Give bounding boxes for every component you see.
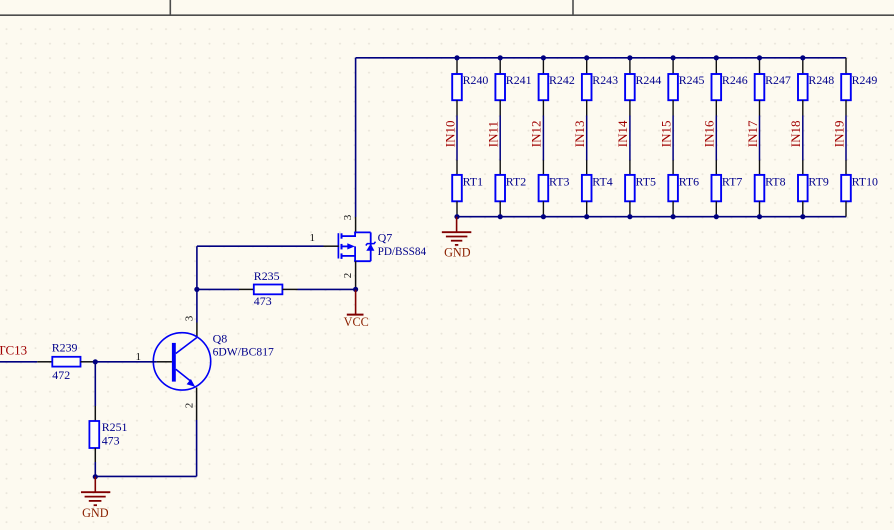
svg-text:R240: R240: [463, 73, 489, 87]
wire/pin column 7 bottom (RT7 to bus): [715, 201, 717, 216]
node / net label IN17: [745, 120, 760, 147]
svg-text:IN11: IN11: [486, 121, 501, 147]
junction ground node: [93, 474, 98, 479]
svg-text:RT2: RT2: [506, 174, 526, 188]
svg-text:RT3: RT3: [549, 174, 569, 188]
junction top bus col 5: [627, 55, 632, 60]
pin number 2 (Q8 emitter): [184, 403, 196, 409]
svg-text:2: 2: [342, 273, 354, 279]
wire/pin column 5 bottom (RT5 to bus): [629, 201, 631, 216]
power VCC: [344, 289, 369, 328]
ground GND (resistor bank): [442, 217, 471, 260]
wire/pin column 5 top (bus to R244): [629, 58, 631, 74]
transistor Q8 NPN 6DW/BC817: [153, 331, 274, 390]
svg-text:IN15: IN15: [658, 120, 673, 147]
svg-text:3: 3: [184, 315, 196, 321]
junction top bus col 4: [584, 55, 589, 60]
junction top bus col 3: [541, 55, 546, 60]
wire column 6 middle (R245 to RT6): [672, 100, 674, 175]
svg-text:VCC: VCC: [344, 315, 369, 329]
junction top bus col 2: [498, 55, 503, 60]
resistor R246: [712, 73, 748, 100]
wire column 7 middle (R246 to RT7): [715, 100, 717, 175]
resistor RT6: [668, 174, 699, 201]
svg-text:R246: R246: [722, 73, 748, 87]
node / net label IN12: [529, 120, 544, 147]
wire/pin column 2 top (bus to R241): [499, 58, 501, 74]
junction bottom bus col 4: [584, 214, 589, 219]
junction node gate/R235: [194, 287, 199, 292]
wire/pin column 8 top (bus to R247): [759, 58, 761, 74]
resistor R245: [668, 73, 704, 100]
wire/pin column 1 top (bus to R240): [456, 58, 458, 74]
wire Q8 emitter down and left to ground node: [95, 388, 196, 477]
svg-text:R235: R235: [254, 269, 280, 283]
wire left vertical down to node: [196, 246, 198, 289]
resistor R247: [755, 73, 791, 100]
wire/pin column 4 bottom (RT4 to bus): [586, 201, 588, 216]
junction base node: [93, 359, 98, 364]
resistor R240: [452, 73, 488, 100]
resistor RT1: [452, 174, 483, 201]
resistor RT8: [755, 174, 786, 201]
svg-text:R247: R247: [765, 73, 791, 87]
wire column 9 middle (R248 to RT9): [802, 100, 804, 175]
wire top bus from Q7 drain to resistor bank: [356, 57, 847, 59]
resistor R239 472: [52, 340, 81, 382]
wire column 4 middle (R243 to RT4): [586, 100, 588, 175]
wire/pin column 10 bottom (RT10 to bus): [845, 201, 847, 216]
net label TC13: [0, 342, 27, 357]
wire/pin column 8 bottom (RT8 to bus): [759, 201, 761, 216]
wire node to Q8 base: [95, 361, 172, 363]
node / net label IN19: [831, 120, 846, 147]
svg-text:IN13: IN13: [572, 120, 587, 147]
wire column 1 middle (R240 to RT1): [456, 100, 458, 175]
svg-text:R245: R245: [679, 73, 705, 87]
resistor R249: [841, 73, 877, 100]
wire/pin column 2 bottom (RT2 to bus): [499, 201, 501, 216]
svg-text:473: 473: [254, 294, 272, 308]
resistor R242: [539, 73, 575, 100]
node / net label IN18: [788, 120, 803, 147]
svg-text:IN16: IN16: [702, 120, 717, 147]
pin number 3 (Q8 collector): [184, 315, 196, 321]
wire column 2 middle (R241 to RT2): [499, 100, 501, 175]
wire R239 to base node: [81, 361, 96, 363]
junction bottom bus col 2: [498, 214, 503, 219]
svg-text:R251: R251: [102, 420, 128, 434]
svg-text:IN18: IN18: [788, 120, 803, 147]
wire/pin column 6 top (bus to R245): [672, 58, 674, 74]
svg-text:R239: R239: [52, 340, 78, 354]
resistor R243: [582, 73, 618, 100]
junction top bus col 9: [800, 55, 805, 60]
wire/pin column 3 bottom (RT3 to bus): [542, 201, 544, 216]
resistor RT3: [539, 174, 570, 201]
wire/pin column 6 bottom (RT6 to bus): [672, 201, 674, 216]
svg-text:R244: R244: [636, 73, 662, 87]
wire/pin column 9 bottom (RT9 to bus): [802, 201, 804, 216]
svg-text:RT5: RT5: [636, 174, 656, 188]
ground GND (Q8 emitter / R251): [81, 477, 110, 520]
wire node down to Q8 collector: [196, 289, 198, 337]
wire node down to R251: [94, 362, 96, 421]
svg-text:Q8: Q8: [213, 331, 228, 345]
resistor RT2: [495, 174, 526, 201]
svg-text:1: 1: [310, 232, 316, 244]
wire/pin column 9 top (bus to R248): [802, 58, 804, 74]
svg-text:TC13: TC13: [0, 342, 27, 357]
resistor R251 473: [89, 420, 127, 448]
resistor R241: [495, 73, 531, 100]
svg-text:RT6: RT6: [679, 174, 699, 188]
svg-text:R248: R248: [808, 73, 834, 87]
svg-text:RT10: RT10: [852, 174, 878, 188]
svg-text:RT1: RT1: [463, 174, 483, 188]
svg-text:3: 3: [342, 214, 354, 220]
junction bottom bus col 6: [671, 214, 676, 219]
pin number 1 (Q8 base): [136, 351, 142, 363]
svg-text:RT7: RT7: [722, 174, 742, 188]
svg-text:IN17: IN17: [745, 120, 760, 147]
junction top bus col 1: [454, 55, 459, 60]
wire/pin column 3 top (bus to R242): [542, 58, 544, 74]
junction node at VCC: [353, 287, 358, 292]
svg-text:6DW/BC817: 6DW/BC817: [213, 345, 274, 358]
svg-text:GND: GND: [444, 245, 471, 259]
svg-text:IN12: IN12: [529, 120, 544, 147]
wire column 3 middle (R242 to RT3): [542, 100, 544, 175]
node / net label IN14: [615, 120, 630, 147]
svg-text:IN10: IN10: [442, 120, 457, 147]
junction top bus col 7: [714, 55, 719, 60]
node / net label IN10: [442, 120, 457, 147]
node / net label IN15: [658, 120, 673, 147]
node / net label IN16: [702, 120, 717, 147]
junction top bus col 6: [671, 55, 676, 60]
wire Q7 gate to left vertical: [197, 245, 339, 247]
junction top bus col 8: [757, 55, 762, 60]
junction bottom bus col 1: [454, 214, 459, 219]
junction bottom bus col 3: [541, 214, 546, 219]
pin number 3 (Q7 drain): [342, 214, 354, 220]
svg-text:IN19: IN19: [831, 120, 846, 147]
wire bottom bus of resistor bank: [457, 216, 847, 218]
wire/pin column 10 top (bus to R249): [845, 58, 847, 74]
junction bottom bus col 8: [757, 214, 762, 219]
svg-text:2: 2: [184, 403, 196, 409]
wire column 5 middle (R244 to RT5): [629, 100, 631, 175]
junction bottom bus col 9: [800, 214, 805, 219]
wire/pin column 1 bottom (RT1 to bus): [456, 201, 458, 216]
wire/pin column 7 top (bus to R246): [715, 58, 717, 74]
node / net label IN13: [572, 120, 587, 147]
svg-text:472: 472: [52, 368, 70, 382]
svg-text:R243: R243: [592, 73, 618, 87]
resistor RT7: [712, 174, 743, 201]
wire Q7 source to VCC node: [355, 261, 357, 289]
wire Q7 drain to top bus: [355, 58, 357, 233]
svg-text:R241: R241: [506, 73, 532, 87]
node / net label IN11: [486, 121, 501, 147]
svg-text:RT8: RT8: [765, 174, 785, 188]
svg-text:R249: R249: [852, 73, 878, 87]
svg-text:RT4: RT4: [592, 174, 612, 188]
svg-text:GND: GND: [82, 506, 109, 520]
svg-text:Q7: Q7: [378, 230, 393, 244]
wire R251 to ground node: [94, 448, 96, 477]
svg-text:RT9: RT9: [808, 174, 828, 188]
resistor RT9: [798, 174, 829, 201]
transistor Q7 P-MOSFET PD/BSS84: [338, 230, 426, 261]
svg-text:PD/BSS84: PD/BSS84: [378, 246, 427, 258]
pin number 2 (Q7 source): [342, 273, 354, 279]
svg-text:IN14: IN14: [615, 120, 630, 147]
resistor R248: [798, 73, 834, 100]
wire/pin column 4 top (bus to R243): [586, 58, 588, 74]
resistor RT5: [625, 174, 656, 201]
wire column 8 middle (R247 to RT8): [759, 100, 761, 175]
wire TC13 to R239: [0, 361, 52, 363]
junction bottom bus col 7: [714, 214, 719, 219]
resistor RT4: [582, 174, 613, 201]
resistor R235 473: [197, 269, 356, 308]
svg-text:473: 473: [102, 434, 120, 448]
junction bottom bus col 5: [627, 214, 632, 219]
pin number 1 (Q7 gate): [310, 232, 316, 244]
wire column 10 middle (R249 to RT10): [845, 100, 847, 175]
resistor RT10: [841, 174, 878, 201]
resistor R244: [625, 73, 661, 100]
svg-text:R242: R242: [549, 73, 575, 87]
